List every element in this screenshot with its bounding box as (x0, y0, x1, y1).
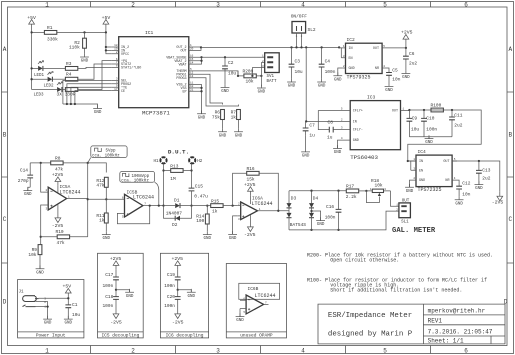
svg-text:1k: 1k (212, 209, 218, 215)
svg-text:21: 21 (190, 89, 194, 92)
wire R10 right to output node (87, 163, 89, 237)
resistor R10 (41, 229, 88, 246)
svg-text:75k: 75k (212, 114, 220, 120)
svg-text:TPS60403: TPS60403 (350, 154, 378, 161)
ground under C14 (23, 187, 32, 197)
svg-text:4: 4 (301, 347, 305, 354)
svg-text:R10: R10 (56, 229, 64, 235)
svg-text:VBAT: VBAT (178, 63, 186, 67)
svg-text:10u: 10u (295, 69, 303, 75)
capacitor C1 (65, 302, 80, 319)
svg-text:LED1: LED1 (34, 74, 45, 78)
svg-text:GND: GND (419, 179, 425, 183)
svg-text:100n: 100n (325, 69, 336, 75)
svg-text:CFLY+: CFLY+ (353, 110, 363, 114)
svg-text:C4: C4 (325, 58, 331, 64)
annotation box 100mVpp (120, 172, 159, 206)
frame row labels right (504, 46, 513, 306)
title block frame (318, 304, 505, 344)
wire IC5A out to IC5B input node (88, 198, 119, 200)
svg-text:GAL. METER: GAL. METER (392, 227, 436, 235)
ground IC4 (410, 180, 412, 187)
wire D4 midpoint to ground (312, 211, 321, 221)
svg-text:C15: C15 (195, 183, 203, 189)
-2V5 supply at IC5A (52, 204, 64, 229)
svg-text:6: 6 (464, 1, 468, 8)
wire R3 to STAT1 pin (78, 67, 112, 68)
regulator IC2 TPS79325 (339, 37, 385, 80)
resistor R15 (192, 198, 238, 214)
svg-text:5Vpp: 5Vpp (106, 150, 117, 154)
svg-text:1: 1 (45, 347, 49, 354)
svg-text:NR: NR (445, 179, 449, 183)
svg-text:47k: 47k (96, 183, 104, 189)
svg-text:mperkov@riteh.hr: mperkov@riteh.hr (428, 308, 486, 315)
svg-text:H1: H1 (153, 160, 159, 164)
+5V supply 2 (102, 15, 111, 29)
wire R18 to SL1 (391, 191, 399, 206)
svg-text:R8: R8 (55, 156, 61, 162)
ground under J1 (43, 316, 52, 326)
wire SV1 pin3 (252, 68, 264, 76)
svg-text:A: A (3, 46, 7, 53)
svg-text:C2: C2 (228, 60, 234, 66)
frame column labels bottom (45, 347, 468, 354)
svg-text:IN: IN (349, 47, 353, 51)
svg-text:EP: EP (183, 91, 187, 95)
svg-text:C7: C7 (309, 123, 315, 129)
svg-text:10k: 10k (28, 252, 36, 258)
wire R4 to STAT2 pin (78, 64, 112, 79)
svg-text:IC2: IC2 (347, 37, 356, 43)
svg-text:+2V5: +2V5 (401, 30, 413, 36)
op-amp charger IC1 MCP73871 (112, 30, 196, 117)
capacitor C12 (456, 181, 471, 198)
svg-text:CE: CE (121, 90, 125, 94)
svg-text:10u: 10u (411, 126, 419, 132)
svg-text:3: 3 (216, 1, 220, 8)
svg-text:10u: 10u (72, 312, 80, 318)
svg-text:1k: 1k (99, 218, 105, 224)
svg-text:R15: R15 (211, 198, 219, 204)
op-amp IC5A LTC6244 (42, 184, 87, 210)
capacitor C17 (102, 270, 118, 290)
svg-text:2u2: 2u2 (454, 122, 462, 128)
IC1 pin numbers (114, 44, 194, 91)
ground in unused box (239, 309, 241, 317)
svg-text:IC6B: IC6B (248, 286, 259, 292)
svg-text:PROG3: PROG3 (176, 77, 186, 81)
svg-text:110k: 110k (69, 45, 80, 51)
ground under C4 (317, 79, 326, 89)
svg-text:10n: 10n (392, 77, 400, 83)
op-amp IC6A LTC6244 (238, 196, 289, 222)
flying capacitor C8 (318, 111, 343, 141)
capacitor C14 (18, 163, 33, 187)
Power Input box (18, 280, 84, 339)
svg-text:C1: C1 (72, 302, 78, 308)
IC5 decoupling box (98, 253, 144, 338)
svg-text:100n: 100n (164, 303, 175, 309)
svg-text:2u2: 2u2 (409, 61, 417, 67)
svg-text:Sheet: 1/1: Sheet: 1/1 (428, 338, 464, 345)
svg-text:1: 1 (45, 1, 49, 8)
svg-text:C17: C17 (105, 272, 113, 278)
svg-text:47k: 47k (57, 240, 65, 246)
svg-text:SL1: SL1 (401, 220, 409, 224)
svg-text:OUT: OUT (443, 160, 449, 164)
svg-text:VPCC: VPCC (121, 53, 129, 57)
resistor R4 (65, 72, 77, 81)
wire LED2 to R4 (52, 78, 65, 80)
ground under R9 (36, 265, 45, 275)
svg-text:STAT1/*LBO: STAT1/*LBO (121, 66, 141, 71)
potentiometer R18 (366, 178, 390, 203)
svg-text:OUT: OUT (392, 110, 398, 114)
svg-text:5: 5 (383, 1, 387, 8)
charge pump IC3 TPS60403 (341, 95, 410, 161)
svg-text:cca. 100kHz: cca. 100kHz (92, 154, 120, 159)
ground under C9 C10 C11 (409, 137, 452, 139)
mounting hole H1 (153, 157, 166, 164)
svg-text:2.2k: 2.2k (346, 194, 357, 200)
svg-text:C16: C16 (326, 204, 334, 210)
svg-text:B: B (508, 132, 512, 139)
svg-text:10k: 10k (246, 78, 254, 84)
wire PROG1 to R6 (196, 74, 223, 104)
ground under C7 (301, 149, 310, 159)
svg-text:Power Input: Power Input (36, 333, 66, 339)
capacitor C11 (449, 110, 463, 137)
svg-text:100n: 100n (102, 283, 113, 289)
svg-text:IC6 decoupling: IC6 decoupling (166, 333, 204, 339)
feedback resistor R16 (233, 166, 279, 211)
annotation box 5Vpp (88, 146, 127, 163)
svg-text:C9: C9 (412, 115, 418, 121)
svg-text:4: 4 (301, 1, 305, 8)
resistor R3 (65, 61, 77, 70)
ground under R200 (257, 85, 266, 95)
dual diode D4 (309, 191, 319, 230)
frame row labels left (3, 46, 7, 306)
-2V5 supply at IC6A (244, 215, 256, 238)
svg-text:C13: C13 (482, 167, 490, 173)
svg-text:CFLY-: CFLY- (353, 129, 363, 133)
svg-text:EN: EN (419, 169, 423, 173)
ground under R6 (222, 120, 224, 129)
svg-text:EN: EN (349, 57, 353, 61)
-2V5 supply in IC5 box (110, 310, 122, 326)
svg-text:15k: 15k (247, 176, 255, 182)
wire rail to IC3 input (306, 47, 343, 121)
svg-text:100: 100 (196, 218, 204, 224)
resistor R8 (51, 156, 64, 173)
svg-text:LTC6244: LTC6244 (133, 195, 154, 201)
svg-text:LTC6244: LTC6244 (255, 293, 276, 299)
ground under R2 (80, 54, 89, 64)
svg-text:2u2: 2u2 (482, 176, 490, 182)
capacitor C7 (303, 121, 315, 138)
svg-text:2: 2 (131, 347, 135, 354)
svg-text:14: 14 (190, 61, 194, 64)
svg-text:6: 6 (464, 347, 468, 354)
LED LED3 (34, 82, 63, 98)
svg-text:TPS72325: TPS72325 (418, 187, 442, 193)
resistor R17 (346, 183, 367, 199)
svg-text:D4: D4 (313, 196, 319, 202)
svg-text:0.47u: 0.47u (194, 193, 208, 199)
svg-text:100n: 100n (164, 283, 175, 289)
svg-text:IC3: IC3 (367, 95, 376, 101)
wire IC6A noninverting to ground (233, 216, 238, 235)
wire IC3 out rail (408, 110, 481, 161)
svg-text:R1: R1 (47, 25, 53, 31)
+2V5 supply at IC5A (52, 172, 64, 193)
svg-text:13: 13 (190, 75, 194, 78)
regulator IC4 TPS72325 (408, 149, 457, 193)
svg-text:IN: IN (419, 160, 423, 164)
wire LED1 to R3 (43, 67, 66, 69)
ground left bus (93, 105, 102, 115)
svg-text:7.3.2016. 21:05:47: 7.3.2016. 21:05:47 (428, 329, 493, 336)
wire VSS to gnd (196, 85, 202, 114)
svg-text:-2V5: -2V5 (172, 320, 184, 326)
node dots left rail (30, 31, 32, 33)
svg-text:270p: 270p (18, 178, 29, 184)
ground in IC6 box (178, 290, 192, 293)
frame column labels top (45, 1, 468, 8)
capacitor C15 (189, 183, 209, 205)
wire R2 branch (84, 32, 86, 53)
wire IC2 NR to C5 (382, 68, 389, 72)
frame column ticks top (91, 2, 431, 8)
svg-text:1N4007: 1N4007 (166, 211, 183, 217)
svg-text:330k: 330k (47, 36, 58, 42)
wire OUT_2/OUT join (196, 47, 201, 50)
svg-text:10n: 10n (462, 191, 470, 197)
svg-text:LTC6244: LTC6244 (60, 190, 81, 196)
svg-text:cca. 100kHz: cca. 100kHz (121, 178, 149, 183)
+5V supply in power box (62, 284, 71, 298)
wire signal rail (30, 163, 106, 173)
capacitor C9 (407, 110, 420, 137)
wire VBAT bus join (196, 57, 202, 64)
svg-text:Open circuit otherwise.: Open circuit otherwise. (330, 258, 399, 264)
resistor R7 (231, 110, 241, 121)
svg-text:C: C (3, 216, 7, 223)
svg-text:D2: D2 (172, 222, 178, 228)
svg-text:OUT: OUT (373, 47, 379, 51)
diode network bottom wire (289, 211, 399, 230)
svg-text:B: B (3, 132, 7, 139)
resistor R5 (57, 88, 78, 98)
capacitor C3 (289, 47, 303, 75)
svg-text:REV1: REV1 (428, 318, 443, 325)
svg-text:J1: J1 (19, 291, 25, 295)
frame row ticks left (2, 92, 8, 263)
svg-text:C: C (508, 216, 512, 223)
connector SV1 BATT (262, 53, 279, 84)
svg-text:R200: R200 (243, 68, 254, 74)
wire +5V2 down to pins (106, 29, 112, 54)
connector SL1 OUT (396, 199, 410, 224)
capacitor C18 (102, 290, 118, 310)
resistor R200 (238, 68, 261, 84)
svg-text:1M: 1M (170, 176, 176, 182)
svg-text:C19: C19 (167, 272, 175, 278)
svg-text:BATT: BATT (267, 80, 278, 84)
capacitor C2 (222, 57, 236, 76)
capacitor C19 (164, 270, 180, 290)
svg-text:ON/OFF: ON/OFF (291, 14, 308, 20)
IC6 decoupling box (160, 253, 208, 338)
LED LED1 (34, 61, 45, 78)
ground under R11 (102, 231, 111, 241)
+2V5 supply in IC5 box (110, 256, 122, 270)
svg-text:20: 20 (190, 48, 194, 51)
capacitor C10 (421, 110, 437, 137)
IC1 right pin stubs (189, 47, 196, 91)
diode D1 (164, 198, 192, 217)
resistor R1 (44, 25, 58, 42)
svg-text:ESR/Impedance Meter: ESR/Impedance Meter (328, 312, 412, 320)
svg-text:1u: 1u (327, 135, 333, 141)
svg-text:MCP73871: MCP73871 (142, 110, 170, 117)
wire R1 rail (32, 31, 106, 33)
svg-text:C6: C6 (409, 51, 415, 57)
ground at D4 (316, 217, 325, 227)
switch connector SL2 ON/OFF (291, 14, 316, 49)
svg-text:A: A (508, 46, 512, 53)
capacitor C5 (386, 68, 401, 83)
svg-text:Short if additional filtration: Short if additional filtration isn't nee… (330, 288, 462, 294)
op-amp IC5B LTC6244 (119, 189, 164, 218)
svg-text:R4: R4 (66, 72, 72, 78)
svg-text:R100: R100 (431, 103, 442, 109)
resistor R2 (69, 38, 86, 50)
svg-text:+5V: +5V (62, 284, 71, 290)
wire R200 to SV1 pin2 and gnd (238, 63, 265, 87)
svg-text:IC1: IC1 (145, 30, 154, 36)
svg-text:10k: 10k (375, 182, 383, 188)
svg-text:100n: 100n (102, 303, 113, 309)
resistor R9 (28, 245, 42, 269)
wire IC5B feedback (117, 206, 149, 224)
resistor R13 (164, 164, 192, 182)
svg-text:D1: D1 (174, 198, 180, 204)
svg-text:GND: GND (353, 139, 359, 143)
svg-text:C14: C14 (20, 167, 28, 173)
frame column ticks bottom (91, 346, 431, 354)
svg-text:17: 17 (114, 88, 118, 91)
svg-text:IN: IN (353, 121, 357, 125)
resistor R6 (212, 110, 225, 121)
+2V5 supply at IC2 out (401, 30, 413, 48)
svg-text:C11: C11 (454, 112, 462, 118)
svg-text:C12: C12 (462, 181, 470, 187)
svg-text:3X 330R: 3X 330R (57, 92, 76, 98)
svg-text:R13: R13 (170, 164, 178, 170)
+5V supply 1 (27, 15, 36, 29)
wire IC5A inverting input (41, 163, 43, 192)
svg-text:3: 3 (216, 347, 220, 354)
ground under C2 (221, 84, 230, 94)
svg-text:D: D (3, 299, 7, 306)
dual diode D3 BAT54S (287, 191, 307, 230)
wire PROG3 to R7 (196, 78, 239, 106)
wire battery rail to switch and regulator (201, 46, 339, 48)
diode D2 (164, 206, 192, 229)
filter resistor R100 (431, 103, 444, 112)
ground under R14 (203, 231, 212, 241)
svg-text:C8: C8 (328, 120, 334, 126)
wire VBAT rail to SV1 (202, 56, 265, 58)
ground under IC1 right (197, 110, 206, 120)
ground under R7 (238, 120, 240, 129)
svg-text:GND: GND (349, 67, 355, 71)
resistor R14 (196, 206, 209, 232)
svg-text:IC4: IC4 (418, 149, 427, 155)
op-amp IC6B LTC6244 (239, 283, 280, 314)
svg-text:LTC6244: LTC6244 (252, 201, 273, 207)
svg-text:1k: 1k (231, 114, 237, 120)
svg-text:10u: 10u (228, 71, 236, 77)
svg-text:C20: C20 (167, 294, 175, 300)
wire THERM to R200 (196, 71, 238, 76)
svg-text:1u: 1u (309, 133, 315, 139)
wire R5 to *PG pin (78, 61, 112, 90)
ground IC2 (338, 68, 343, 76)
mounting hole H2 (189, 157, 203, 164)
svg-text:LED2: LED2 (44, 85, 55, 89)
note R100 (307, 278, 487, 294)
wire H1 down (163, 164, 165, 206)
wire LED3 to R5 (62, 89, 66, 91)
ground under C5 (385, 83, 394, 93)
svg-text:C3: C3 (295, 58, 301, 64)
ground under C1 (64, 316, 73, 326)
+2V5 supply at IC6A (244, 182, 256, 204)
unused OPAMP box (226, 264, 286, 339)
resistor R11 (96, 199, 108, 231)
svg-text:SL2: SL2 (308, 27, 316, 33)
svg-text:D3: D3 (291, 196, 297, 202)
svg-text:D.U.T.: D.U.T. (168, 148, 189, 155)
svg-text:C5: C5 (392, 68, 398, 74)
svg-text:designed by Marin P: designed by Marin P (328, 331, 413, 339)
svg-text:47k: 47k (55, 167, 63, 173)
svg-text:BAT54S: BAT54S (290, 222, 307, 228)
wire J1 to C1 (44, 298, 69, 319)
capacitor C16 (325, 191, 342, 230)
svg-text:IC5 decoupling: IC5 decoupling (101, 333, 139, 339)
wire IC4 NR to C12 (452, 180, 459, 186)
svg-text:R16: R16 (247, 166, 255, 172)
ground under C12 (455, 196, 464, 206)
diode network top wire (289, 190, 346, 192)
wire IC4 out to -2V5 (452, 161, 500, 192)
wire SEL/PROG2/TE/CE to gnd bus (63, 80, 112, 108)
svg-text:-2V5: -2V5 (52, 223, 64, 229)
ground under C6 (402, 70, 411, 80)
wire +5V rail down (31, 29, 33, 90)
svg-text:2: 2 (131, 1, 135, 8)
svg-text:SV1: SV1 (267, 75, 275, 79)
ground under C3 (287, 79, 296, 89)
svg-text:-2V5: -2V5 (110, 320, 122, 326)
-2V5 supply at IC4 out (492, 192, 504, 206)
ground under C13 (475, 181, 484, 191)
